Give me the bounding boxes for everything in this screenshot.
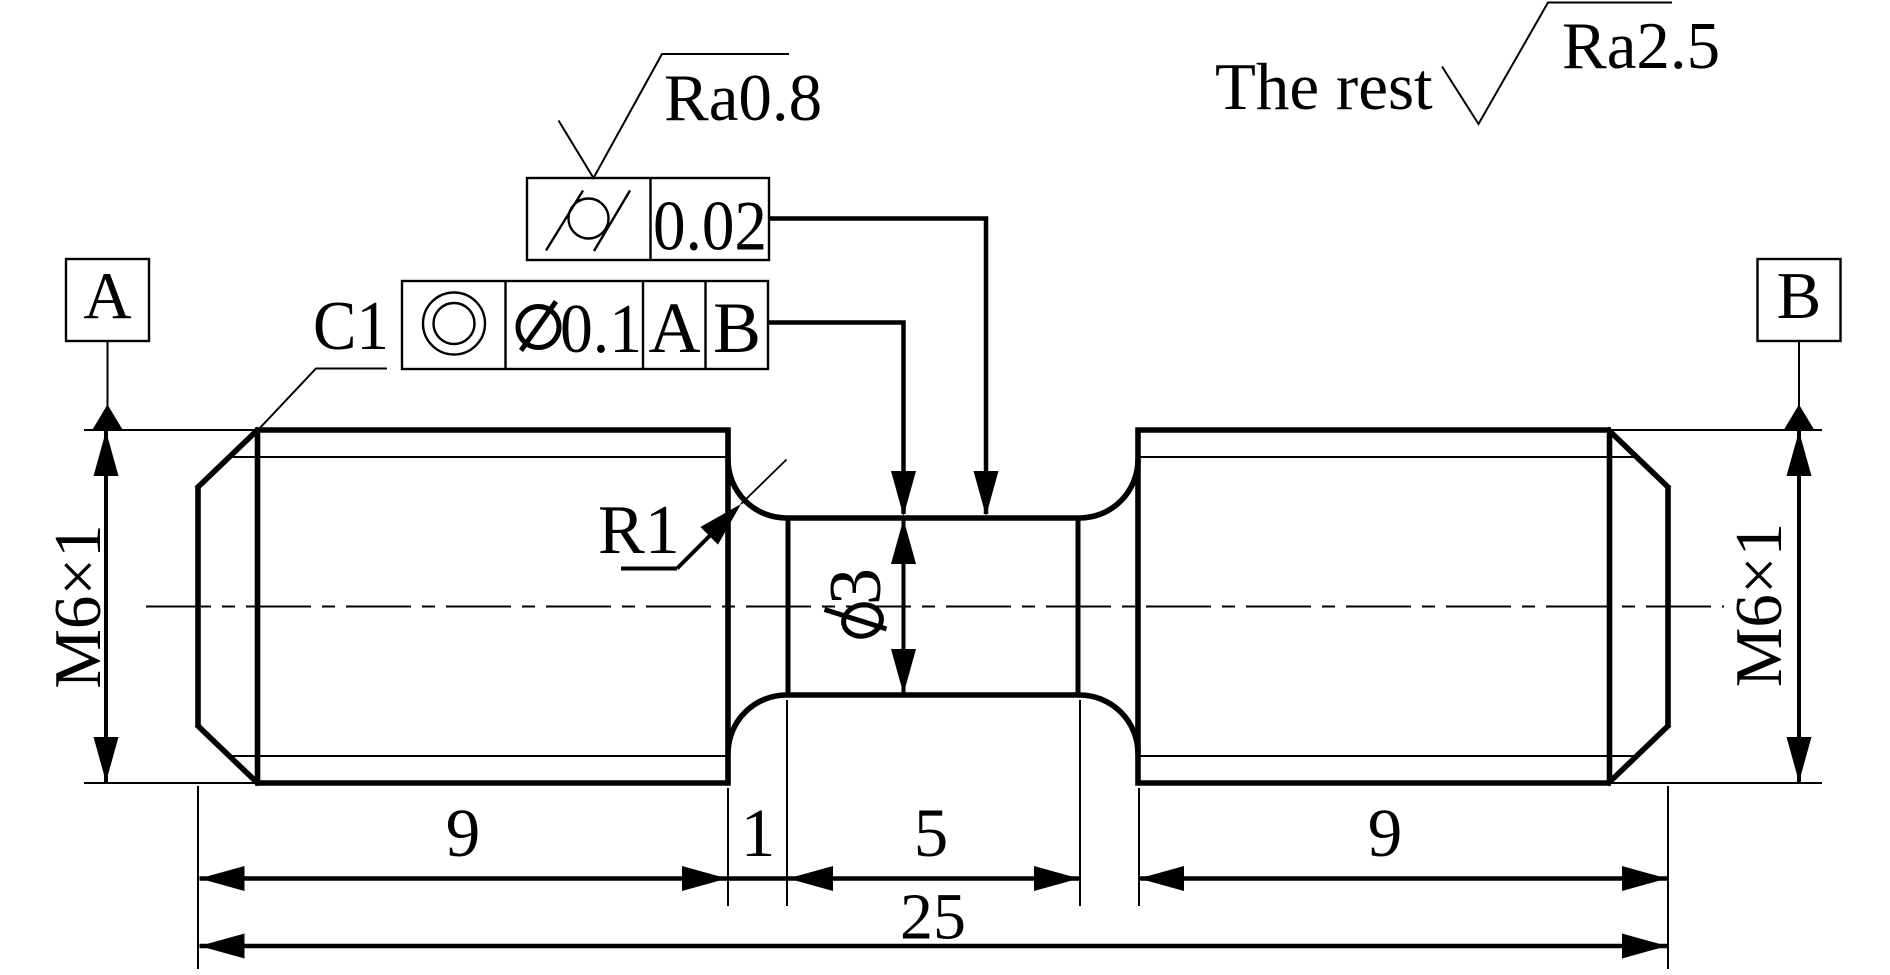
thread minor lines right [1138,457,1635,756]
svg-text:A: A [83,259,131,333]
dimension 9 right [1139,795,1667,891]
svg-text:5: 5 [914,795,949,871]
surface finish Ra0.8 [559,54,823,178]
concentricity symbol [423,293,485,355]
svg-text:1: 1 [741,795,776,871]
svg-text:B: B [1777,259,1822,333]
leader C1 [258,288,389,430]
dimension M6x1 left [41,431,119,782]
svg-text:3: 3 [815,568,897,605]
feature control frame 2: concentricity dia0.1 A B [402,281,916,516]
svg-text:C1: C1 [313,288,389,365]
cylindricity symbol [569,199,609,239]
centerline [146,606,1724,608]
fillet R1 arcs [728,460,1138,754]
part outline: right cylinder [1136,428,1670,786]
svg-text:A: A [649,288,701,368]
svg-text:R1: R1 [598,492,680,569]
svg-text:B: B [713,288,761,368]
leader from FCF1 to gauge [769,219,986,515]
datum A [66,259,149,430]
svg-text:M6×1: M6×1 [1722,523,1796,687]
datum B [1758,259,1841,430]
leader R1 [598,460,787,570]
svg-text:25: 25 [900,881,966,954]
surface finish: the rest Ra2.5 [1215,3,1720,125]
dimension 25 [200,881,1668,959]
leader from FCF2 to gauge [768,323,904,515]
feature control frame 1: cylindricity 0.02 [527,178,999,516]
part outline: left cylinder [197,428,731,786]
svg-text:The rest: The rest [1215,50,1433,124]
dimension row 9 / 1 / 5 [200,795,1080,891]
dimension phi3 [815,519,916,694]
extension lines [84,430,1822,969]
svg-text:9: 9 [1368,795,1403,871]
svg-text:0.1: 0.1 [560,291,642,368]
phi glyph drawn manually [841,601,885,639]
svg-text:0.02: 0.02 [653,188,767,266]
svg-text:Ra2.5: Ra2.5 [1562,9,1720,83]
thread minor lines left [230,457,728,756]
svg-text:9: 9 [446,795,481,871]
gauge section [787,518,1080,695]
dia symbol [518,307,559,348]
svg-text:M6×1: M6×1 [41,524,115,688]
dimension M6x1 right [1722,431,1812,782]
svg-text:Ra0.8: Ra0.8 [664,61,822,135]
